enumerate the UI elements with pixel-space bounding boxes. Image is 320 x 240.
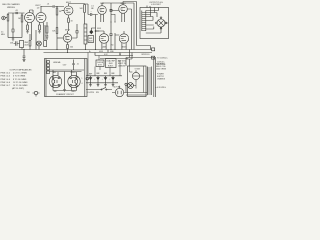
capacitor C2 blob (12, 29, 14, 38)
switch SW1 (86, 87, 112, 89)
wires winding to socket (146, 13, 169, 34)
ground G0 (12, 38, 15, 42)
filter bus bottom (86, 82, 118, 84)
transformer T2 winding (147, 67, 151, 96)
resistor R9 x47 (46, 22, 48, 40)
heater text (53, 61, 67, 67)
label V1 V2 6SC7 (35, 5, 41, 9)
capacitor C15 (97, 76, 100, 83)
resistor R6 (84, 5, 86, 25)
wire V1 plate jog (30, 10, 34, 14)
svg-text:6B4G: 6B4G (121, 47, 127, 49)
caption (56, 93, 74, 96)
svg-text:+: + (94, 78, 95, 80)
resistor R2 (21, 13, 23, 38)
capacitor C12 (23, 56, 26, 60)
parts table col2 (12, 73, 28, 91)
svg-text:8MF: 8MF (96, 73, 99, 75)
svg-text:+: + (90, 11, 91, 13)
balance pot mark (27, 92, 31, 94)
svg-text:CARDBD.: CARDBD. (118, 64, 126, 67)
svg-text:PINS 1 & 2: PINS 1 & 2 (1, 73, 11, 75)
wires output stage (91, 22, 111, 34)
tube V3 (64, 6, 73, 15)
capacitor C9 (14, 41, 20, 46)
ground G4 (63, 87, 66, 92)
component row label 25K (10, 43, 14, 45)
svg-text:BELOW CHASSIS: BELOW CHASSIS (2, 3, 20, 6)
svg-text:B+: B+ (89, 51, 91, 53)
capacitor C16 (104, 76, 107, 83)
label box B+ (141, 54, 150, 56)
heater box (45, 59, 88, 97)
label V8 (121, 47, 127, 49)
jack J1 (2, 16, 6, 20)
wire pot to ground (7, 23, 9, 38)
right mid text (156, 57, 168, 71)
svg-text:10 TO 14 OHMS: 10 TO 14 OHMS (13, 82, 28, 84)
svg-text:8MF: 8MF (111, 73, 114, 75)
capacitor C6 x77 (72, 24, 78, 38)
svg-text:CHASSIS: CHASSIS (157, 78, 166, 81)
svg-text:1W: 1W (46, 38, 49, 40)
right texts bottom (157, 61, 167, 89)
svg-text:PINS 1 & 3: PINS 1 & 3 (1, 76, 11, 78)
filter bus top (86, 75, 122, 77)
node top-left title text (2, 3, 20, 9)
svg-text:OUTPUT IMPEDANCES: OUTPUT IMPEDANCES (10, 68, 33, 71)
svg-text:1000 OHMS: 1000 OHMS (156, 68, 167, 70)
resistor R8 under V6 (67, 45, 69, 53)
capacitor C1 (16, 12, 17, 14)
svg-text:117V AC: 117V AC (114, 86, 122, 89)
socket S2 (68, 75, 80, 87)
chassis boundary right (154, 57, 156, 97)
svg-text:6 TO 8 OHMS: 6 TO 8 OHMS (13, 76, 26, 78)
svg-text:.05: .05 (15, 10, 18, 12)
capacitor C13 (72, 60, 74, 71)
capacitor C5 (110, 9, 112, 11)
tube V7 (99, 34, 109, 44)
terminal circle left (86, 77, 89, 80)
svg-text:WIRING: WIRING (7, 7, 15, 9)
wire R6 top to C4 (85, 4, 88, 15)
socket plug P1 (157, 19, 165, 27)
svg-text:500: 500 (70, 47, 73, 49)
wire ticks into box top (146, 6, 159, 17)
svg-text:1/2: 1/2 (37, 7, 40, 9)
svg-text:TO 115V A.C.: TO 115V A.C. (157, 57, 168, 60)
cathode V2 resistor R4 (39, 22, 41, 30)
wire x36 (35, 42, 37, 50)
svg-text:SPKR FLD: SPKR FLD (141, 54, 150, 56)
svg-text:8MF: 8MF (104, 73, 107, 75)
wire V5 plate to box (123, 2, 151, 50)
PS component box cap (106, 59, 117, 68)
svg-text:SW: SW (96, 92, 99, 94)
socket S1 (49, 75, 61, 87)
tube V2 (36, 13, 46, 23)
svg-text:4.5 TO 5 OHMS: 4.5 TO 5 OHMS (13, 73, 28, 75)
capacitor C14 (89, 76, 92, 83)
potentiometer R1 volume (5, 13, 9, 23)
wire 6.3V line (155, 87, 156, 89)
svg-text:6SC7: 6SC7 (65, 29, 71, 31)
tube V8 (119, 34, 128, 43)
svg-text:PINS 1 & 4: PINS 1 & 4 (1, 79, 12, 81)
output socket box (140, 8, 169, 39)
PS box (128, 66, 147, 97)
wire V1 down (31, 22, 33, 40)
svg-text:14 TO 16 OHMS: 14 TO 16 OHMS (13, 85, 28, 87)
pilot lamp L2 (128, 83, 134, 89)
wires to chassis edge (126, 58, 154, 67)
electrolytic can C10 (20, 41, 24, 48)
grounds under bus (89, 83, 92, 87)
wires into filter (88, 53, 120, 76)
svg-text:& SOCKET: & SOCKET (151, 4, 161, 6)
label V7 (102, 46, 106, 49)
PS text right (118, 61, 127, 68)
svg-text:750: 750 (111, 45, 114, 47)
capacitor C8 (110, 34, 112, 51)
tube V1 (25, 13, 35, 23)
ground G1 (26, 30, 29, 34)
svg-text:.01: .01 (77, 64, 79, 66)
left mid table heading (10, 68, 33, 71)
tube V6 (63, 34, 71, 42)
cable bus line ground (0, 49, 152, 51)
ground G3 center (22, 60, 25, 62)
cable labels (89, 51, 122, 56)
cable bus line 4 (100, 58, 128, 60)
svg-text:4: 4 (82, 83, 83, 85)
AC plug (115, 88, 123, 96)
wire ground bus left (8, 37, 22, 39)
wire V5 grid (111, 10, 119, 22)
wire V8 bias (114, 35, 116, 50)
wire V6 grid left (57, 37, 63, 39)
resistor R5 (56, 7, 58, 50)
verticals into row (22, 25, 45, 50)
rectifier V9 (132, 72, 139, 79)
wire cathodes join (111, 45, 114, 47)
blob comp C11 (44, 41, 47, 47)
wire V3 grid (62, 10, 65, 12)
terminal strip (47, 61, 50, 64)
wire V4 plate to box (102, 3, 134, 50)
svg-text:+: + (102, 78, 103, 80)
svg-text:MEG: MEG (1, 34, 6, 36)
svg-text:+: + (109, 78, 110, 80)
svg-text:1: 1 (82, 78, 83, 80)
tube V5 (119, 5, 128, 14)
wire grid V7 (96, 15, 100, 50)
wires sockets (53, 70, 77, 91)
filter cap labels (89, 73, 115, 76)
wire input line (8, 12, 25, 14)
transformer T1 winding (142, 11, 146, 32)
PS component box choke (96, 60, 104, 67)
output socket label (149, 2, 163, 6)
ground G2 (38, 30, 41, 34)
svg-text:.01: .01 (47, 4, 50, 6)
tube V4 (98, 6, 107, 15)
parts table col1 (1, 73, 12, 87)
svg-text:60 CYCLE: 60 CYCLE (157, 64, 166, 66)
capacitor C7 box (88, 36, 94, 43)
wire grid drop (12, 13, 14, 29)
wire grid V8 (115, 33, 119, 35)
svg-text:ELECT.: ELECT. (108, 65, 114, 67)
capacitor C3 (53, 5, 54, 7)
svg-text:(AT 5% DIST.): (AT 5% DIST.) (12, 87, 25, 90)
cathode V1 resistor R3 (27, 22, 29, 30)
divider ladder RL (84, 24, 87, 44)
capacitor C17 (112, 76, 115, 83)
wire ground mid (23, 50, 25, 57)
svg-text:HUM BAL: HUM BAL (53, 61, 61, 64)
connector blocks chassis (152, 48, 155, 51)
wires in PS box (130, 66, 144, 93)
capacitor C4 (88, 13, 98, 16)
cable bus line 3 (95, 55, 133, 57)
diamond test point (90, 30, 93, 34)
cathode drops V4 V5 (101, 13, 125, 22)
svg-text:8MF: 8MF (89, 73, 92, 75)
svg-text:PINS 1 & 7: PINS 1 & 7 (1, 85, 11, 87)
svg-text:5Y3GT: 5Y3GT (135, 69, 142, 71)
junction dots (23, 6, 115, 53)
svg-text:FILAMENT CIRCUIT: FILAMENT CIRCUIT (56, 93, 74, 96)
wire V2 down (43, 22, 45, 40)
svg-text:6.3V WDG.: 6.3V WDG. (157, 87, 167, 89)
svg-text:PINS 1 & 6: PINS 1 & 6 (1, 82, 11, 84)
resistor R7 under V3 (68, 15, 70, 31)
wire interstage vertical (110, 3, 112, 22)
resistor R10 (29, 40, 31, 50)
vertical connectors cable (95, 50, 132, 60)
wire V3 plate (69, 4, 85, 5)
labels sockets (52, 71, 76, 74)
wire V5 side (127, 9, 131, 50)
cable bus line 2 (44, 52, 153, 54)
wire coupling V2 to V3 (41, 6, 64, 8)
svg-text:8 TO 10 OHMS: 8 TO 10 OHMS (13, 79, 27, 81)
svg-text:TO HTRS: TO HTRS (87, 92, 95, 94)
pilot lamp L1 (37, 41, 42, 46)
bottom wires PS (124, 85, 148, 95)
